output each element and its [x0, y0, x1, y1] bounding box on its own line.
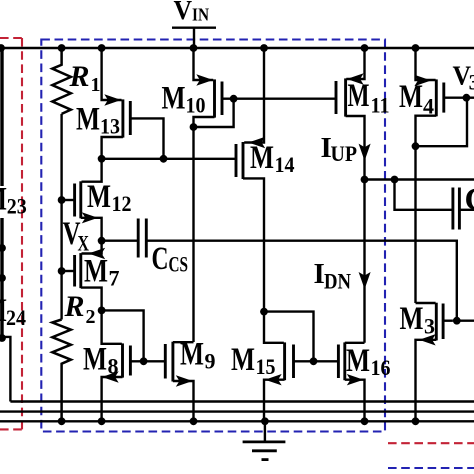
blue dashed box (main loop boundary)	[41, 40, 385, 432]
svg-text:2: 2	[86, 306, 96, 328]
wire: M10 drain down to M9 drain	[192, 127, 194, 342]
label M11	[348, 78, 390, 118]
svg-text:24: 24	[6, 305, 26, 330]
svg-text:15: 15	[256, 354, 276, 379]
svg-text:14: 14	[275, 152, 295, 177]
transistor M13	[102, 48, 164, 159]
transistor M12	[62, 159, 102, 241]
svg-text:M: M	[400, 301, 424, 337]
svg-text:R: R	[69, 60, 90, 93]
svg-text:3: 3	[424, 314, 435, 339]
wire: top supply rail	[0, 47, 474, 49]
label M3	[400, 301, 436, 339]
wire: M15 diode tie to gates	[264, 312, 314, 362]
node: M8/M9 gate wire dot	[140, 357, 148, 365]
svg-text:12: 12	[112, 191, 132, 216]
svg-text:CS: CS	[169, 251, 189, 276]
wire: bottom rail 2	[0, 410, 474, 412]
svg-text:8: 8	[108, 353, 119, 378]
label M10	[162, 81, 206, 118]
svg-text:M: M	[250, 140, 274, 176]
transistor M16	[338, 342, 364, 421]
wire: charge-pump output node to right edge	[365, 178, 474, 180]
transistor M10	[194, 48, 337, 127]
node: M4 drain dot	[412, 142, 420, 150]
node: M14 drain / M15 drain dot	[260, 308, 268, 316]
svg-text:X: X	[78, 231, 90, 256]
transistor M7	[62, 241, 104, 311]
capacitor C2 (cut off at right edge)	[395, 180, 474, 230]
svg-text:IN: IN	[192, 4, 209, 24]
wire: I_UP node down to M16	[363, 180, 365, 343]
transistor M24 (cut off at left edge)	[0, 293, 26, 330]
label V_X	[63, 216, 90, 256]
wire: M13 drain node to M14 gate	[102, 158, 236, 160]
svg-text:23: 23	[7, 193, 27, 218]
svg-text:M: M	[84, 254, 108, 290]
svg-text:UP: UP	[331, 141, 358, 166]
svg-text:M: M	[87, 179, 111, 215]
junction dots on ground rail	[58, 417, 420, 425]
transistor M23 (cut off at left edge)	[0, 182, 27, 219]
node: M7 gate tap on R divider	[58, 267, 66, 275]
svg-text:M: M	[180, 337, 204, 373]
svg-text:M: M	[346, 343, 370, 379]
svg-text:C: C	[465, 182, 474, 218]
transistor M9	[165, 342, 193, 422]
svg-text:16: 16	[371, 355, 391, 380]
label I_DN	[314, 258, 352, 294]
svg-text:10: 10	[186, 92, 206, 117]
node V_IN terminal bar	[172, 27, 216, 29]
wire: bottom rail 1	[10, 400, 474, 402]
node: C2 branch dot	[391, 176, 399, 184]
node V_X dot	[98, 237, 106, 245]
wire: V_IN stem	[193, 28, 195, 48]
svg-text:9: 9	[205, 348, 216, 373]
node: M15/M16 gate wire dot	[310, 357, 318, 365]
current arrow I_DN	[360, 273, 370, 288]
label C_CS	[152, 241, 189, 277]
label R1	[69, 60, 101, 96]
svg-text:M: M	[399, 79, 423, 115]
svg-text:C: C	[152, 241, 169, 277]
label M14	[250, 140, 295, 177]
wire: M4 drain down to M3	[414, 146, 416, 303]
node: M12 gate tap on R divider	[58, 196, 66, 204]
node: M10 drain dots	[190, 95, 238, 131]
node: M3 gate dot	[453, 317, 461, 325]
label M15	[231, 342, 276, 379]
resistor R1	[52, 48, 71, 114]
svg-text:4: 4	[423, 94, 434, 119]
svg-text:M: M	[76, 102, 100, 138]
svg-text:M: M	[231, 342, 255, 378]
wire: R1 to R2 (x=61.6 column)	[60, 114, 62, 320]
wire: bottom rail 3 (ground rail)	[0, 420, 474, 422]
svg-text:11: 11	[371, 93, 390, 118]
legend blue dashed line (bottom right, cut off)	[388, 467, 474, 469]
label M7	[84, 254, 120, 291]
transistor M3	[416, 303, 453, 422]
current arrow I_UP	[360, 145, 370, 160]
svg-text:1: 1	[91, 74, 101, 96]
junction dots on top rail	[0, 44, 419, 52]
node: M7 drain dot	[98, 307, 106, 315]
transistor M4	[416, 48, 474, 146]
svg-text:V: V	[174, 0, 193, 25]
wire: left column jog to bottom rail	[2, 337, 10, 402]
junction dots on left column	[0, 244, 6, 342]
svg-text:M: M	[83, 342, 107, 378]
red dashed box (left, cut off at image edge)	[0, 38, 25, 429]
transistor M15	[264, 312, 338, 422]
svg-text:M: M	[162, 81, 186, 117]
label M9	[180, 337, 216, 374]
svg-text:7: 7	[109, 265, 120, 290]
legend red dashed line (bottom right, cut off)	[388, 442, 474, 444]
node: I_UP/I_DN node dot	[361, 176, 369, 184]
label M16	[346, 343, 391, 380]
label M13	[76, 102, 120, 139]
svg-text:3: 3	[469, 70, 474, 95]
label M12	[87, 179, 132, 216]
wire: C_CS to M3 gate (long horizontal)	[146, 241, 457, 321]
label V_3	[453, 59, 474, 94]
label R2	[64, 290, 96, 328]
capacitor C_CS	[102, 219, 147, 258]
node: M4 gate dot	[463, 94, 471, 102]
wire: M3 gate node to right edge	[457, 320, 474, 322]
node: M13 drain / diode junction dots	[98, 155, 168, 163]
label M8	[83, 342, 119, 379]
wire: left vertical line (cut off, M23/M24 column)	[0, 48, 3, 338]
svg-text:DN: DN	[324, 269, 351, 294]
label I_UP	[321, 132, 358, 166]
transistor M14	[236, 48, 264, 312]
transistor M8	[102, 310, 166, 421]
label M4	[399, 79, 434, 119]
label V_IN	[174, 0, 210, 25]
svg-text:R: R	[64, 290, 85, 323]
resistor R2	[52, 320, 71, 422]
ground symbol	[243, 421, 286, 459]
svg-text:M: M	[348, 78, 370, 114]
transistor M11	[336, 48, 365, 180]
svg-text:13: 13	[100, 113, 120, 138]
